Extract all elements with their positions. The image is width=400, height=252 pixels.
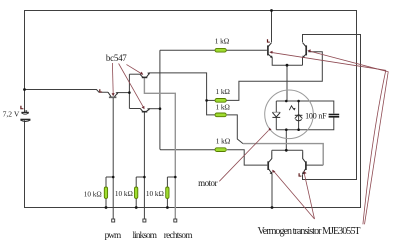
svg-text:bc547: bc547 bbox=[106, 53, 127, 63]
svg-text:pwm: pwm bbox=[105, 231, 122, 241]
svg-text:10 kΩ: 10 kΩ bbox=[84, 191, 102, 199]
svg-text:10 kΩ: 10 kΩ bbox=[146, 190, 164, 198]
svg-text:Vermogen transistor MJE3055T: Vermogen transistor MJE3055T bbox=[258, 226, 361, 237]
svg-text:rechtsom: rechtsom bbox=[164, 231, 193, 241]
svg-text:100 nF: 100 nF bbox=[305, 111, 327, 120]
svg-text:motor: motor bbox=[198, 178, 217, 188]
svg-text:1 kΩ: 1 kΩ bbox=[216, 136, 231, 145]
svg-text:10 kΩ: 10 kΩ bbox=[115, 190, 133, 198]
svg-text:1 kΩ: 1 kΩ bbox=[216, 103, 231, 112]
svg-text:1 kΩ: 1 kΩ bbox=[216, 87, 231, 96]
svg-text:1 kΩ: 1 kΩ bbox=[215, 37, 230, 46]
svg-text:7,2 V: 7,2 V bbox=[3, 110, 20, 119]
svg-text:linksom: linksom bbox=[133, 231, 158, 241]
